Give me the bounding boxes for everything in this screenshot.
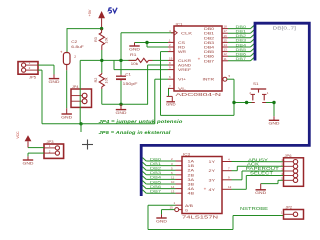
wire bus to DB0-DB7 inputs: [143, 156, 176, 193]
ground at VI-: [166, 96, 176, 106]
svg-text:R2: R2: [94, 78, 98, 83]
ground at JP3: [23, 156, 34, 165]
svg-text:JP5 = Analog in eksternal: JP5 = Analog in eksternal: [99, 130, 172, 135]
svg-text:GND: GND: [49, 79, 60, 84]
svg-text:12: 12: [228, 185, 232, 189]
wire ABUSY net: [232, 157, 284, 162]
label 5V handwritten note: [109, 8, 118, 13]
wire switch to ground: [266, 103, 274, 117]
svg-text:10k: 10k: [104, 37, 108, 43]
wire analog node stub: [80, 124, 82, 132]
svg-text:17: 17: [224, 29, 228, 33]
wire CS RD to ground: [135, 43, 169, 48]
svg-text:JP2: JP2: [286, 205, 293, 209]
svg-text:+: +: [198, 57, 201, 62]
svg-text:GND: GND: [116, 110, 127, 115]
svg-text:JP6: JP6: [285, 154, 292, 158]
svg-text:GND: GND: [255, 190, 266, 195]
wire PAPEROUT net: [232, 166, 284, 180]
junction C1 clock node: [119, 59, 122, 62]
ground at JP5: [49, 75, 60, 85]
svg-text:WR: WR: [178, 49, 186, 54]
svg-text:6.8uF: 6.8uF: [71, 45, 85, 49]
svg-text:12: 12: [224, 52, 228, 56]
svg-text:14: 14: [224, 43, 228, 47]
svg-text:DB7: DB7: [236, 56, 247, 61]
svg-text:NSTROBE: NSTROBE: [240, 206, 268, 211]
svg-text:74LS157N: 74LS157N: [182, 215, 218, 220]
wire G pin to ground: [162, 210, 175, 215]
svg-text:VI-: VI-: [178, 86, 187, 91]
resistor R3: [94, 29, 108, 61]
wire A/B NSTROBE loop: [148, 205, 284, 229]
svg-text:10k: 10k: [131, 62, 139, 66]
junction ground rail C1: [119, 103, 122, 106]
svg-text:10k: 10k: [104, 77, 108, 83]
wire analog node to VI+: [81, 123, 155, 125]
svg-text:S1: S1: [253, 82, 259, 86]
svg-text:+5V: +5V: [88, 9, 92, 16]
wire SELECT net: [232, 171, 284, 190]
svg-text:DB7: DB7: [150, 189, 161, 194]
svg-text:4Y: 4Y: [209, 187, 216, 192]
svg-text:JP4 = jumper untuk potensio: JP4 = jumper untuk potensio: [99, 119, 183, 124]
connector JP4: [71, 85, 92, 107]
connector JP3: [44, 140, 64, 158]
svg-text:DB7: DB7: [204, 58, 214, 63]
svg-text:+: +: [60, 49, 63, 54]
svg-text:19: 19: [169, 56, 173, 60]
svg-text:R3: R3: [94, 37, 98, 42]
svg-text:ADC0804-N: ADC0804-N: [176, 92, 222, 98]
svg-text:2: 2: [74, 55, 76, 59]
ground under C2: [61, 108, 72, 119]
svg-text:INTR: INTR: [203, 77, 215, 82]
wire ACK net: [232, 162, 284, 171]
svg-text:3Y: 3Y: [209, 177, 216, 182]
svg-text:GND: GND: [129, 47, 140, 52]
svg-text:13: 13: [224, 48, 228, 52]
connector JP5: [18, 61, 38, 80]
junction switch node: [245, 101, 248, 104]
svg-text:15: 15: [224, 38, 228, 42]
resistor R1: [129, 53, 169, 66]
svg-text:18: 18: [224, 25, 228, 29]
junction INTR node: [232, 101, 235, 104]
wire CLK net: [121, 33, 174, 61]
wire VI- to ground: [167, 88, 170, 96]
svg-text:1Y: 1Y: [209, 159, 216, 164]
wire JP5 pin1 to ground: [38, 65, 54, 74]
svg-text:150pF: 150pF: [123, 82, 139, 86]
wire INTR to switch: [227, 79, 252, 102]
svg-text:VCC: VCC: [16, 131, 20, 139]
capacitor C1: [116, 60, 139, 104]
switch S1: [249, 82, 268, 103]
svg-text:G: G: [185, 207, 188, 212]
power VCC supply symbol: [16, 131, 31, 148]
ground at JP6: [255, 184, 266, 196]
svg-text:VREF: VREF: [178, 67, 192, 72]
svg-text:GND: GND: [61, 115, 72, 120]
svg-text:JP4: JP4: [72, 85, 79, 89]
junction switch ground: [272, 101, 275, 104]
wire pot node vertical: [79, 60, 81, 123]
svg-text:GND: GND: [23, 161, 34, 166]
connector JP2: [281, 205, 304, 219]
ground at CS RD: [129, 43, 140, 52]
bus DB[0..7]: [141, 23, 309, 196]
svg-text:+: +: [204, 186, 207, 191]
svg-text:GND: GND: [269, 121, 280, 126]
svg-text:C1: C1: [125, 73, 130, 77]
capacitor C2: [60, 40, 85, 70]
svg-text:VI+: VI+: [178, 77, 187, 82]
label NSTROBE net: [240, 206, 268, 211]
svg-text:SELECT: SELECT: [250, 171, 274, 176]
wire JP3 pin2 to ground: [28, 153, 44, 156]
junction +5V node: [100, 27, 103, 30]
wire DB0-DB7 to bus: [228, 24, 254, 61]
svg-text:IC1: IC1: [176, 23, 183, 27]
wire C2 to ground: [66, 70, 68, 108]
wire VCC to JP3: [28, 147, 44, 149]
junction R3 R2 node: [100, 59, 103, 62]
svg-text:CLK: CLK: [181, 30, 193, 35]
ground at analog rail: [116, 104, 127, 115]
junction analog input node: [79, 122, 82, 125]
ground at S1: [269, 116, 280, 125]
wire ground to JP6 pin5: [261, 180, 284, 183]
svg-text:JP5: JP5: [29, 76, 36, 80]
svg-text:GND: GND: [166, 102, 176, 106]
wire +5V rail to C2 branch: [67, 28, 102, 30]
wire AGND to ground rail: [148, 65, 168, 104]
svg-text:16: 16: [224, 34, 228, 38]
svg-text:4B: 4B: [188, 191, 195, 196]
origin cross mark: [82, 140, 93, 150]
svg-text:C2: C2: [71, 40, 77, 44]
wire VI+ analog input: [155, 79, 168, 124]
svg-text:15: 15: [170, 205, 174, 209]
svg-text:2Y: 2Y: [209, 168, 216, 173]
junction CS RD: [145, 41, 148, 44]
wire clock rail: [80, 59, 136, 61]
svg-text:11: 11: [224, 57, 227, 61]
wire analog ground rail: [102, 103, 148, 105]
power +5V supply symbol P1: [88, 9, 105, 28]
resistor R2: [94, 60, 108, 104]
wire WR to INTR loop: [161, 52, 235, 116]
wire VREF to divider rail: [114, 60, 168, 69]
note analog JP5: [99, 130, 172, 135]
wire +5V rail corner to C2: [66, 28, 68, 52]
svg-text:IC3: IC3: [183, 153, 190, 157]
ground at IC3: [156, 214, 167, 223]
op-amp IC1 ADC0804: [168, 23, 231, 99]
op-amp IC3 74LS157: [170, 153, 232, 220]
wire JP5 pin2 analog in: [38, 70, 81, 124]
note jumper JP4: [99, 119, 183, 124]
svg-text:DB[0..7]: DB[0..7]: [273, 25, 297, 30]
svg-text:R1: R1: [130, 53, 137, 57]
svg-text:GND: GND: [156, 218, 167, 223]
connector JP6: [281, 154, 303, 187]
